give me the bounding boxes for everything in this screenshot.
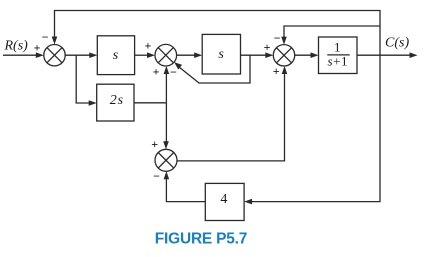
wire junction up into sum2 xyxy=(165,72,167,103)
label fraction 1/(s+1) in G4 xyxy=(327,40,349,69)
arrowhead into sum2 lower-right diagonal xyxy=(174,62,182,69)
arrowhead into sum1 top xyxy=(52,37,58,45)
arrowhead into block 4 right side xyxy=(244,199,252,205)
wire sum2 to block G3 xyxy=(177,54,195,56)
summing junction S1 xyxy=(44,45,65,66)
arrowhead into block G1 xyxy=(89,52,97,58)
svg-text:+: + xyxy=(273,64,280,78)
block H value 4 xyxy=(205,183,244,220)
svg-text:+: + xyxy=(151,137,158,151)
arrowhead into sum4 top xyxy=(163,141,169,149)
arrowhead into sum3 top xyxy=(281,37,287,45)
block G4 value 1/(s+1) xyxy=(319,37,358,74)
wire feedback inner top line to sum3 xyxy=(284,26,380,39)
summing junction S4 xyxy=(155,149,177,171)
svg-text:4: 4 xyxy=(220,192,227,207)
arrowhead into sum3 left xyxy=(265,52,273,58)
arrowhead into sum3 bottom xyxy=(282,66,288,74)
arrowhead output C(s) xyxy=(410,52,418,58)
summing junction S3 xyxy=(273,45,294,66)
block G3 value s xyxy=(202,34,240,74)
svg-text:+: + xyxy=(144,39,151,53)
svg-text:−: − xyxy=(153,169,160,183)
wire G3 to sum3 xyxy=(241,54,267,56)
svg-text:R(s): R(s) xyxy=(4,38,29,53)
svg-text:s: s xyxy=(113,48,119,63)
wire junction down into sum4 xyxy=(165,103,167,143)
wire sum1 to block G1 xyxy=(65,54,90,56)
svg-text:FIGURE P5.7: FIGURE P5.7 xyxy=(155,231,247,248)
block G2 value 2s xyxy=(97,84,134,121)
wire takeoff after G3 down-left diagonal into sum2 xyxy=(180,55,250,83)
wire 2s output to junction feeding sum2 and sum4 xyxy=(134,102,166,104)
svg-text:1: 1 xyxy=(334,40,341,55)
wire feedback down right side to block 4 xyxy=(251,55,380,201)
svg-text:−: − xyxy=(274,31,281,45)
wire sum3 to block G4 xyxy=(295,54,311,56)
arrowhead into sum2 bottom xyxy=(164,66,170,74)
summing junction S2 xyxy=(155,44,177,66)
svg-text:+: + xyxy=(34,40,41,54)
arrowhead into block G3 xyxy=(194,52,202,58)
arrowhead into sum4 bottom xyxy=(164,171,170,179)
block G1 value s xyxy=(97,36,134,75)
arrowhead into sum2 left xyxy=(147,52,155,58)
svg-text:C(s): C(s) xyxy=(385,36,409,51)
svg-text:−: − xyxy=(170,65,177,79)
svg-text:2s: 2s xyxy=(110,93,124,108)
wire G1 to sum2 xyxy=(135,54,148,56)
wire sum4 output to sum3 bottom xyxy=(177,72,285,161)
arrowhead into sum1 left xyxy=(36,52,44,58)
svg-text:s+1: s+1 xyxy=(328,54,349,69)
arrowhead into block 2s xyxy=(89,100,97,106)
svg-text:s: s xyxy=(218,47,224,62)
wire input R(s) to sum1 xyxy=(3,54,36,56)
wire G4 to output C(s) xyxy=(357,54,410,56)
svg-text:+: + xyxy=(153,65,160,79)
wire block 4 to sum4 xyxy=(166,178,205,202)
svg-text:+: + xyxy=(264,40,271,54)
svg-text:−: − xyxy=(42,30,49,44)
wire feedback outer top line to sum1 xyxy=(55,11,381,56)
wire branch down from sum1 output to 2s block xyxy=(76,55,89,103)
arrowhead into block G4 xyxy=(311,52,319,58)
